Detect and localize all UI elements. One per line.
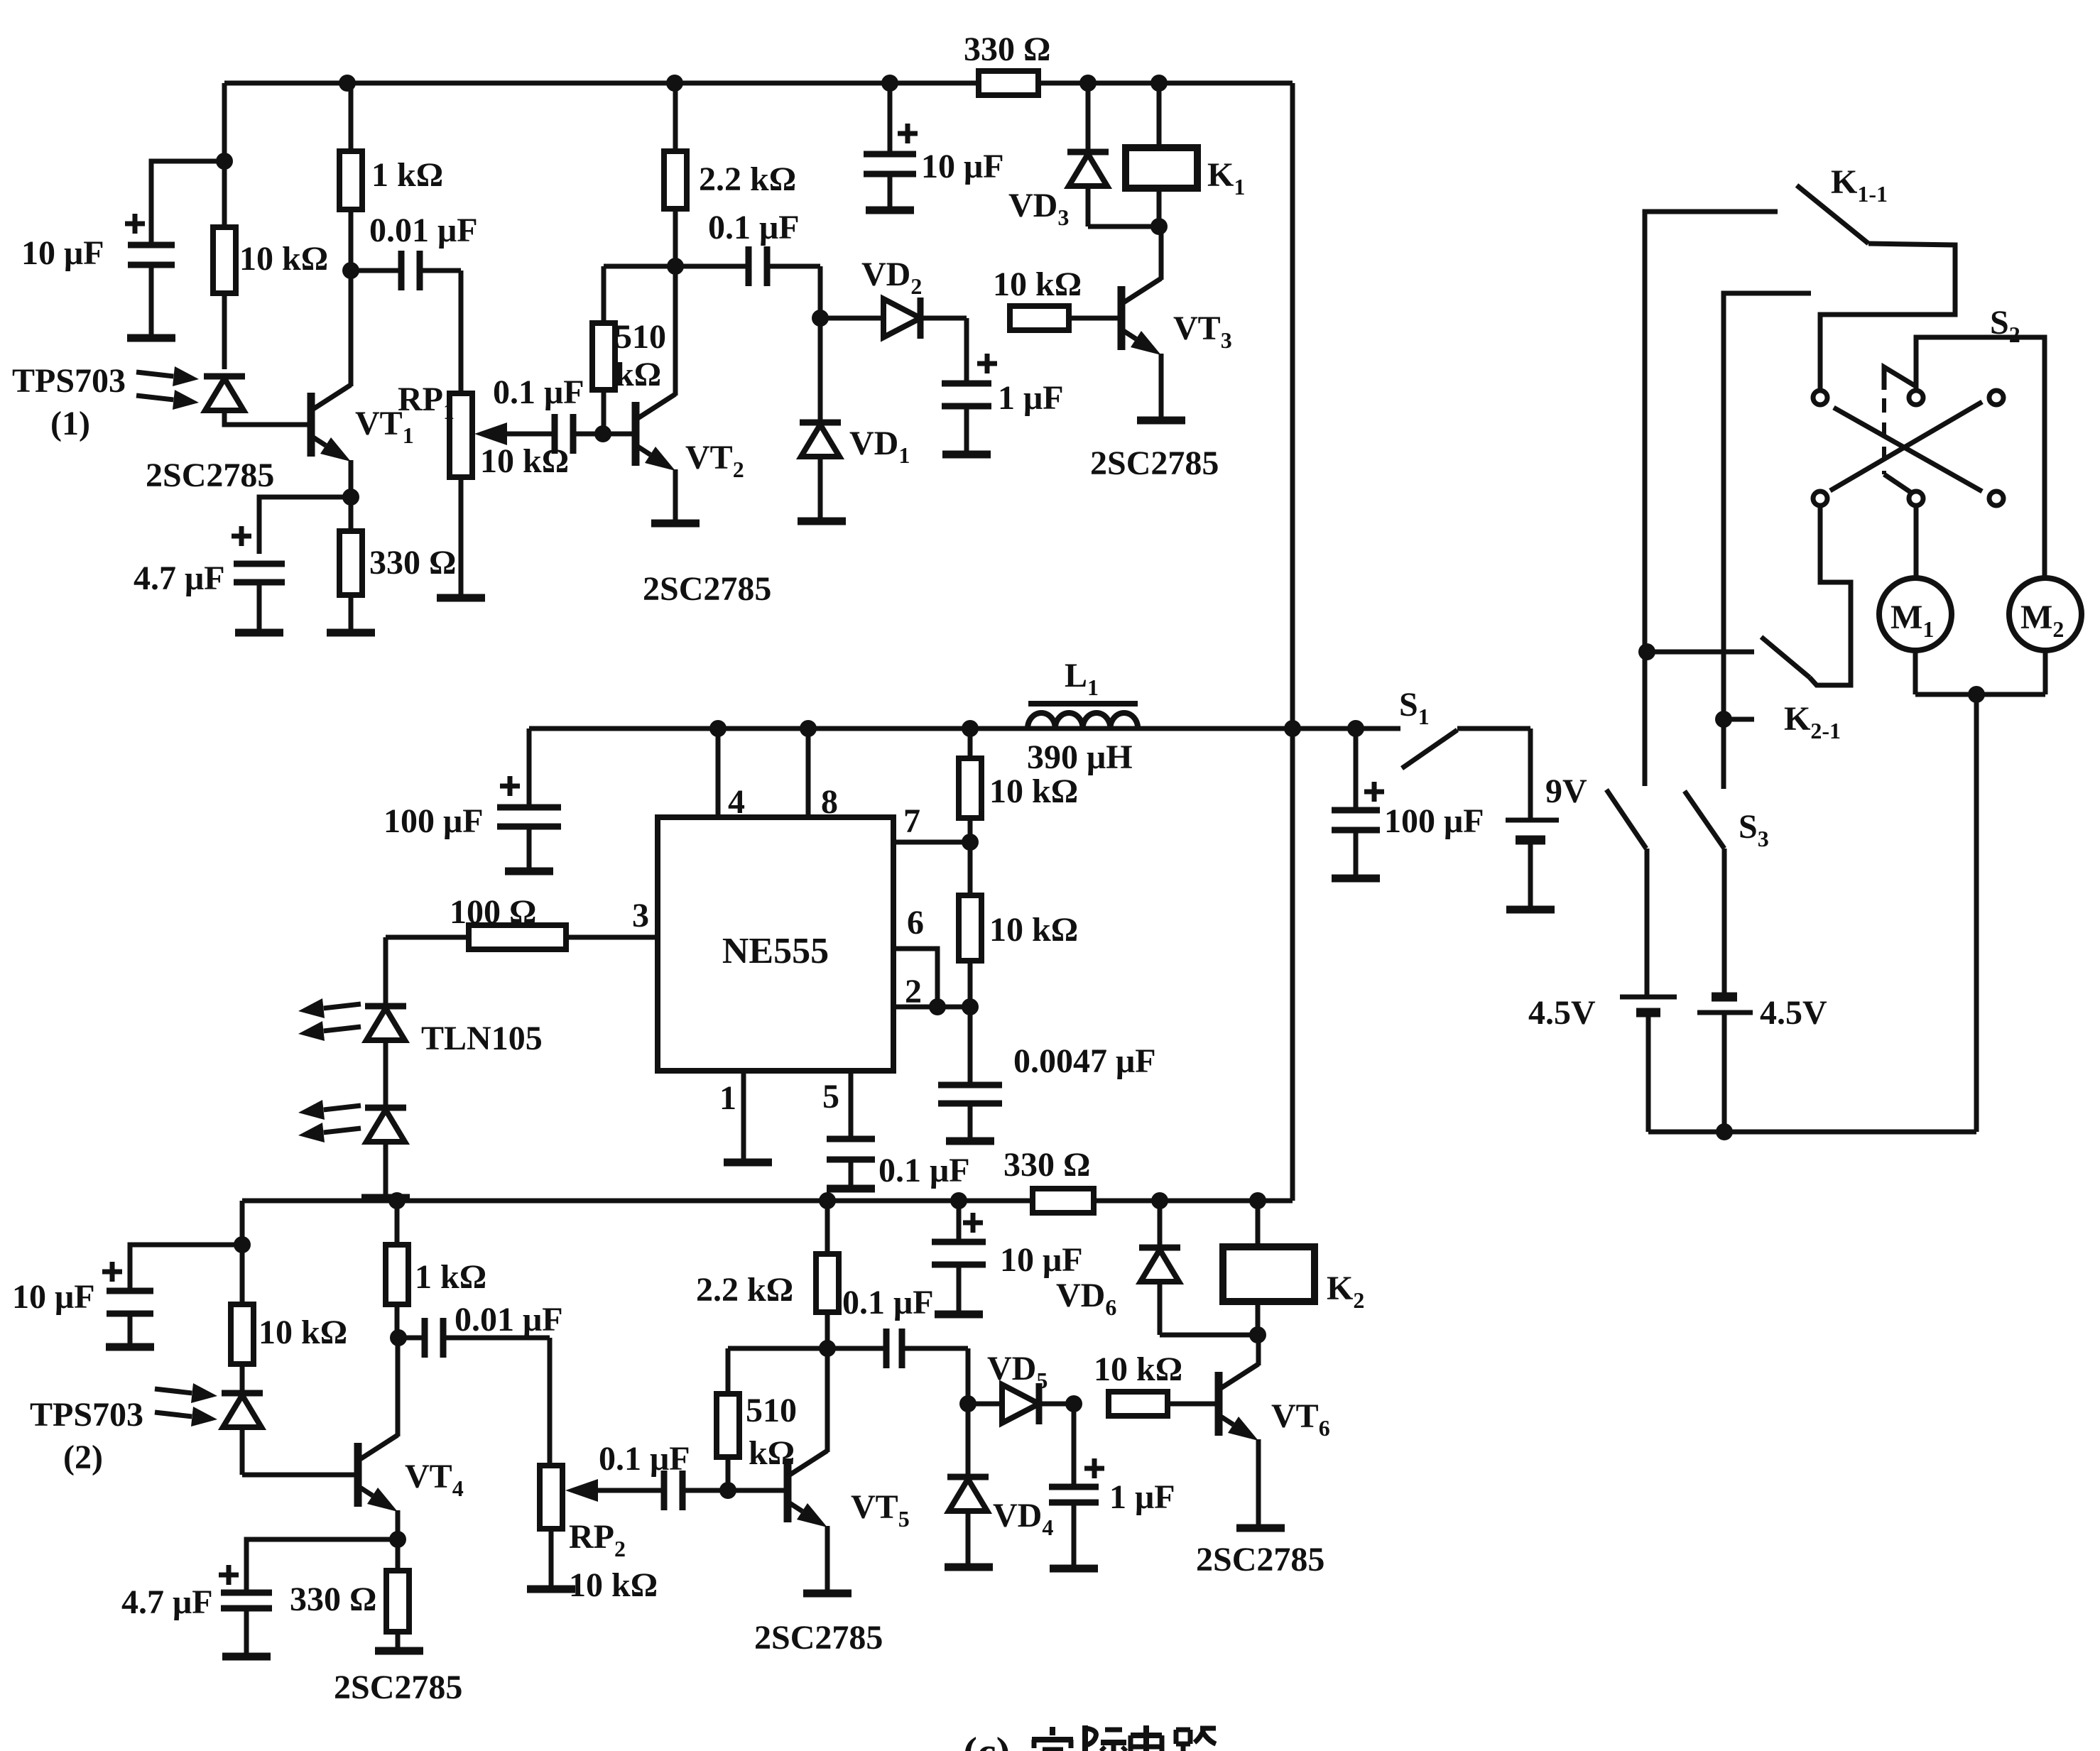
diode VD2 xyxy=(820,316,883,321)
svg-text:0.1 μF: 0.1 μF xyxy=(599,1440,690,1478)
svg-text:(2): (2) xyxy=(63,1439,103,1476)
wire top supply rail xyxy=(224,81,1293,86)
relay K2 xyxy=(1256,1201,1261,1247)
transistor VT6 2SC2785 xyxy=(1215,1372,1223,1436)
node VT2 base-510k xyxy=(594,425,611,442)
ground below VT5 xyxy=(803,1590,852,1598)
node VD5-VD4 xyxy=(959,1395,976,1412)
S2 actuator hook xyxy=(1884,367,1915,390)
wire S2 bottom-center to M1 xyxy=(1914,506,1919,578)
ground below 1uF bottom xyxy=(1050,1565,1098,1573)
wire emitter to 4.7uF bottom xyxy=(246,1539,398,1593)
svg-text:1: 1 xyxy=(719,1079,736,1117)
capacitor 0.1uF VT2-VD2 xyxy=(675,264,746,269)
resistor 2.2k bottom xyxy=(825,1201,830,1254)
diode VD5 xyxy=(968,1402,1002,1407)
resistor 10k top-left xyxy=(222,161,227,227)
wire down to VD2 node xyxy=(818,266,823,318)
svg-text:4.7 μF: 4.7 μF xyxy=(121,1583,213,1621)
svg-text:10 μF: 10 μF xyxy=(21,234,104,272)
node bottom rail 2.2k xyxy=(819,1192,836,1209)
ground below 0.1uF pin5 xyxy=(827,1185,875,1193)
node bottom rail 1k xyxy=(388,1192,406,1209)
caption hanzi dian xyxy=(1143,1725,1149,1751)
svg-text:0.01 μF: 0.01 μF xyxy=(455,1301,563,1338)
node rail-K1 xyxy=(1150,75,1168,92)
battery 4.5V left xyxy=(1620,995,1677,1000)
pin 4 xyxy=(716,729,721,817)
node rail-2.2k xyxy=(666,75,683,92)
wire motors common xyxy=(1915,692,2045,697)
svg-text:2SC2785: 2SC2785 xyxy=(1196,1541,1324,1578)
node line2 label stub xyxy=(1715,711,1732,728)
svg-text:(c): (c) xyxy=(963,1729,1011,1751)
wire line2 vertical xyxy=(1724,293,1811,789)
resistor 10k bottom-left xyxy=(240,1245,245,1304)
svg-text:9V: 9V xyxy=(1545,773,1587,810)
node K2-VT6 xyxy=(1249,1326,1266,1343)
node VT5 base-510k xyxy=(719,1482,736,1499)
resistor 1k bottom xyxy=(395,1201,400,1245)
arrows TPS703-1 xyxy=(136,372,173,376)
resistor 100 ohm xyxy=(469,925,566,949)
pin 2 xyxy=(893,1005,970,1010)
svg-text:1 kΩ: 1 kΩ xyxy=(371,156,443,194)
node ne555 rail pin4 xyxy=(709,720,727,737)
wire photodiode to VT1 base xyxy=(224,410,308,425)
wire to S1 xyxy=(1293,726,1400,731)
capacitor 1uF top xyxy=(964,318,969,383)
wire motor return vertical xyxy=(1974,694,1979,1132)
resistor 330 on top rail xyxy=(979,71,1038,95)
node VT4 emitter xyxy=(389,1531,406,1548)
node battery2 return xyxy=(1716,1123,1733,1140)
svg-text:2SC2785: 2SC2785 xyxy=(643,570,771,608)
capacitor 0.01uF top xyxy=(351,268,398,273)
potentiometer RP2 xyxy=(540,1466,562,1529)
ground below 100uF right xyxy=(1332,875,1380,883)
switch S3 blade xyxy=(1685,791,1724,849)
svg-text:10 kΩ: 10 kΩ xyxy=(989,911,1078,949)
capacitor 0.1uF RP2-VT5 xyxy=(661,1471,668,1510)
transistor VT3 2SC2785 xyxy=(1118,286,1126,350)
node rail-10uF xyxy=(881,75,898,92)
svg-text:8: 8 xyxy=(821,783,838,821)
ground below TLN105 xyxy=(361,1194,410,1202)
svg-text:NE555: NE555 xyxy=(722,931,829,971)
photodiode TPS703 (2) xyxy=(222,1390,263,1397)
svg-text:330 Ω: 330 Ω xyxy=(1003,1146,1090,1184)
wiper arrow RP2 xyxy=(598,1488,664,1493)
node rail-VD3 xyxy=(1079,75,1097,92)
node bottom rail K2 xyxy=(1249,1192,1266,1209)
wire left riser from rail xyxy=(222,83,227,161)
svg-text:330 Ω: 330 Ω xyxy=(369,544,456,582)
wire emitter to 4.7uF xyxy=(259,497,351,554)
node bottom rail VD6 xyxy=(1151,1192,1168,1209)
wire VT2 collector xyxy=(673,266,678,396)
relay K1 xyxy=(1157,83,1162,148)
S2 actuator dashed link xyxy=(1882,398,1886,474)
svg-text:1 kΩ: 1 kΩ xyxy=(415,1258,486,1296)
capacitor 100uF left xyxy=(527,729,532,807)
svg-text:10 kΩ: 10 kΩ xyxy=(993,266,1082,303)
svg-text:100 μF: 100 μF xyxy=(383,802,484,840)
node left riser junction xyxy=(216,153,233,170)
capacitor 10uF bottom-left xyxy=(107,1288,153,1294)
wire K2-1 to S2 bottom-left xyxy=(1810,506,1851,685)
ground below 10uF bottom-mid xyxy=(935,1311,983,1319)
resistor 10k VT3 base xyxy=(1010,306,1069,330)
node L1-right-bus xyxy=(1284,720,1301,737)
ground below VT2 xyxy=(651,520,700,528)
node 100uF right xyxy=(1347,720,1364,737)
wire down to VD5 node xyxy=(966,1348,971,1404)
ground below 100uF left xyxy=(505,868,553,875)
battery 9V xyxy=(1528,729,1533,820)
svg-text:10 kΩ: 10 kΩ xyxy=(239,240,328,278)
diode VD4 xyxy=(966,1404,971,1477)
ground below 10uF top-left xyxy=(127,334,175,342)
wire S2 top-center to M2 xyxy=(1916,337,2045,578)
label L1 xyxy=(1028,701,1138,707)
svg-text:10 kΩ: 10 kΩ xyxy=(1094,1351,1182,1388)
svg-text:6: 6 xyxy=(907,904,924,942)
capacitor 0.01uF bottom xyxy=(398,1336,422,1341)
ground below RP1 xyxy=(437,594,485,602)
caption hanzi ji xyxy=(1082,1725,1088,1751)
resistor 330 on bottom rail xyxy=(1033,1189,1094,1213)
svg-text:10 kΩ: 10 kΩ xyxy=(569,1566,658,1604)
svg-text:0.1 μF: 0.1 μF xyxy=(493,373,584,411)
LED TLN105 D1 xyxy=(365,1003,406,1010)
svg-text:1 μF: 1 μF xyxy=(1109,1478,1175,1516)
svg-text:10 μF: 10 μF xyxy=(921,148,1004,185)
wire NE555 vcc rail xyxy=(529,726,1293,731)
motor M1 xyxy=(1879,578,1952,650)
resistor 2.2k top xyxy=(673,83,678,151)
svg-text:0.1 μF: 0.1 μF xyxy=(708,209,800,246)
resistor 510k bottom xyxy=(726,1457,731,1490)
resistor 1k xyxy=(349,83,354,151)
ground below 330 top xyxy=(327,629,375,637)
wire blade1 to battery1 xyxy=(1645,849,1650,997)
node ne555 rail 10k xyxy=(962,720,979,737)
svg-text:TLN105: TLN105 xyxy=(421,1020,543,1057)
wire S3 to battery2 xyxy=(1722,849,1727,997)
node pin7 xyxy=(962,834,979,851)
svg-text:0.1 μF: 0.1 μF xyxy=(842,1284,934,1321)
switch K1-1 blade xyxy=(1797,185,1868,244)
motor M2 xyxy=(2009,578,2082,650)
capacitor 4.7uF bottom xyxy=(219,1573,239,1578)
wire VD6 to K2 bottom xyxy=(1160,1333,1258,1338)
capacitor 0.1uF pin5 xyxy=(827,1136,875,1142)
svg-text:4.5V: 4.5V xyxy=(1528,994,1596,1032)
arrows TLN105 D1 xyxy=(324,1004,361,1008)
pin 1 ground xyxy=(741,1071,746,1162)
switch S2 contact top-center xyxy=(1909,391,1923,405)
wire M1 bottom xyxy=(1913,650,1918,694)
resistor 10k VT6 base xyxy=(1109,1392,1168,1416)
node VT1 emitter xyxy=(342,489,359,506)
wire pin3 down to LEDs xyxy=(383,937,388,1006)
caption hanzi shi xyxy=(1050,1727,1055,1735)
node pin2-pin6 xyxy=(929,998,946,1015)
svg-text:10 kΩ: 10 kΩ xyxy=(259,1314,347,1351)
capacitor 10uF top-mid xyxy=(888,83,893,154)
wire 510k top to 2.2k junction xyxy=(604,264,675,269)
ground below 1uF top xyxy=(942,451,991,459)
wire VT4 collector xyxy=(396,1338,401,1436)
wire M2 bottom xyxy=(2043,650,2048,694)
battery 4.5V right xyxy=(1712,993,1737,1002)
ground below RP2 xyxy=(527,1586,575,1593)
wire cap to VT5 base xyxy=(682,1488,785,1493)
node 1k-collector bottom xyxy=(390,1329,407,1346)
svg-text:3: 3 xyxy=(632,897,649,934)
svg-text:TPS703: TPS703 xyxy=(30,1396,143,1434)
svg-text:10 μF: 10 μF xyxy=(12,1278,95,1316)
node motors common xyxy=(1968,686,1985,703)
ground below 330 bottom xyxy=(375,1647,423,1655)
svg-text:10 kΩ: 10 kΩ xyxy=(989,773,1078,810)
wire VT3 emitter xyxy=(1159,354,1164,420)
arrows TPS703-2 xyxy=(155,1389,192,1393)
LED TLN105 D2 xyxy=(365,1105,406,1111)
node ne555 rail pin8 xyxy=(800,720,817,737)
op-amp U1 NE555 box xyxy=(658,817,893,1071)
svg-text:4.7 μF: 4.7 μF xyxy=(134,560,225,597)
wire VT6 emitter xyxy=(1256,1439,1261,1528)
wire photodiode to VT4 base xyxy=(242,1473,355,1478)
arrows TLN105 D2 xyxy=(324,1106,361,1110)
svg-text:330 Ω: 330 Ω xyxy=(290,1581,376,1618)
svg-text:100 μF: 100 μF xyxy=(1384,802,1484,840)
resistor 10k B (pin6) xyxy=(968,842,973,895)
switch S2 contact top-right xyxy=(1989,391,2003,405)
inductor L1 390uH xyxy=(970,726,1028,731)
wire RP1 to ground xyxy=(459,477,464,598)
wire to 10uF bottom-left xyxy=(130,1245,242,1291)
wire VT1 collector xyxy=(349,271,354,386)
node bottom rail 10uF xyxy=(950,1192,967,1209)
wire 510k to 2.2k junction xyxy=(728,1346,827,1351)
node K2-1 feed xyxy=(1638,643,1655,660)
wire VT1 emitter down xyxy=(349,460,354,497)
resistor 10k A (pin7) xyxy=(968,729,973,758)
transistor VT2 2SC2785 xyxy=(632,402,640,466)
svg-text:kΩ: kΩ xyxy=(615,356,661,393)
capacitor 100uF right xyxy=(1354,729,1359,810)
svg-text:(1): (1) xyxy=(50,405,90,442)
ground below 10uF bottom-left xyxy=(106,1343,154,1351)
svg-text:0.1 μF: 0.1 μF xyxy=(878,1152,970,1189)
resistor 330 bottom receiver xyxy=(396,1539,401,1571)
wiper arrow RP1 xyxy=(507,432,555,437)
svg-text:4: 4 xyxy=(728,783,745,821)
svg-text:510: 510 xyxy=(746,1392,797,1429)
node pin2-10k xyxy=(962,998,979,1015)
switch 9V-side blade xyxy=(1606,790,1646,849)
node VT5 collector junction xyxy=(819,1340,836,1357)
wire S2 cross TL-BR xyxy=(1834,408,1982,491)
svg-text:2.2 kΩ: 2.2 kΩ xyxy=(696,1271,793,1309)
pin 6 xyxy=(893,949,937,1007)
ground below 9V battery xyxy=(1506,906,1555,914)
wire K1-1 to S2 top-left xyxy=(1820,244,1955,390)
wire to 10uF cap xyxy=(151,161,224,245)
caption hanzi lu xyxy=(1176,1728,1190,1733)
wire VT4 emitter down xyxy=(396,1510,401,1539)
transistor VT4 2SC2785 xyxy=(354,1443,362,1507)
node bottom-left riser junction xyxy=(234,1236,251,1253)
switch S2 contact bottom-left xyxy=(1813,491,1827,506)
wire battery return xyxy=(1648,1130,1976,1135)
wire cap to RP2 xyxy=(548,1338,553,1466)
transistor VT5 2SC2785 xyxy=(784,1458,792,1522)
svg-text:7: 7 xyxy=(903,802,920,840)
pin 3 xyxy=(566,935,658,940)
switch S1 xyxy=(1402,730,1457,768)
capacitor 4.7uF top xyxy=(232,534,251,539)
wire K1-1 feed vertical xyxy=(1645,212,1778,786)
ground below VD4 xyxy=(945,1564,993,1571)
capacitor 0.0047uF xyxy=(968,1007,973,1085)
svg-text:TPS703: TPS703 xyxy=(12,362,126,400)
wire VT3 collector xyxy=(1159,227,1164,280)
node VT2 collector junction xyxy=(667,258,684,275)
svg-text:100 Ω: 100 Ω xyxy=(450,893,536,931)
svg-text:2SC2785: 2SC2785 xyxy=(1090,444,1219,482)
wire VT2 emitter xyxy=(673,469,678,523)
svg-text:1 μF: 1 μF xyxy=(998,379,1064,417)
diode VD1 xyxy=(818,318,823,422)
switch S2 contact bottom-center xyxy=(1909,491,1923,506)
ground below 10uF top-mid xyxy=(866,207,914,214)
wire VT5 emitter xyxy=(825,1526,830,1593)
pin 5 xyxy=(849,1071,854,1139)
svg-text:2SC2785: 2SC2785 xyxy=(334,1669,462,1706)
svg-text:0.01 μF: 0.01 μF xyxy=(369,212,478,249)
wire bottom-left riser xyxy=(240,1201,245,1245)
node K1-VT3 xyxy=(1150,218,1168,235)
switch S2 contact top-left xyxy=(1813,391,1827,405)
switch S2 contact bottom-right xyxy=(1989,491,2003,506)
pin 8 xyxy=(806,729,811,817)
wire S2 cross BL-TR xyxy=(1830,402,1982,491)
wire cap to VT2 base xyxy=(573,432,634,437)
capacitor 0.1uF RP1-VT2 xyxy=(552,414,558,454)
switch K2-1 blade xyxy=(1761,637,1810,677)
ground below VT6 xyxy=(1236,1524,1285,1532)
svg-text:390 μH: 390 μH xyxy=(1027,738,1133,776)
svg-text:2: 2 xyxy=(905,973,922,1010)
svg-text:2.2 kΩ: 2.2 kΩ xyxy=(699,160,796,198)
wire VT6 collector xyxy=(1256,1335,1261,1365)
svg-text:5: 5 xyxy=(822,1078,839,1115)
capacitor 10uF bottom-mid xyxy=(957,1201,962,1242)
wire VT5 collector xyxy=(825,1348,830,1452)
photodiode TPS703 (1) xyxy=(204,373,245,380)
node rail-1k xyxy=(339,75,356,92)
node VD5-1uF xyxy=(1065,1395,1082,1412)
capacitor 10uF (top-left) xyxy=(128,242,175,249)
transistor VT1 2SC2785 xyxy=(308,393,315,457)
capacitor 0.1uF VT5-VD5 xyxy=(827,1346,883,1351)
capacitor 1uF bottom xyxy=(1072,1404,1077,1487)
ground below 4.7uF top xyxy=(235,629,283,637)
svg-text:2SC2785: 2SC2785 xyxy=(146,457,274,494)
resistor 330 top receiver xyxy=(349,497,354,531)
resistor 510k top xyxy=(602,390,606,434)
wire K2-1 feed horizontal xyxy=(1647,650,1754,655)
wire bottom supply rail xyxy=(242,1199,1293,1204)
diode VD3 xyxy=(1086,83,1091,152)
potentiometer RP1 xyxy=(450,393,472,477)
wire RP2 to ground xyxy=(549,1529,554,1589)
wire right-edge vertical bus xyxy=(1290,83,1295,1201)
ground below VT3 xyxy=(1137,417,1185,425)
svg-text:0.0047 μF: 0.0047 μF xyxy=(1013,1042,1156,1080)
node VD2-VD1 xyxy=(812,310,829,327)
svg-text:10 μF: 10 μF xyxy=(1000,1241,1083,1279)
node 1k-collector-cap xyxy=(342,262,359,279)
pin 7 xyxy=(893,840,970,845)
ground below 0.0047uF xyxy=(946,1138,994,1145)
ground below 4.7uF bottom xyxy=(222,1653,271,1661)
ground below VD1 xyxy=(798,518,846,525)
wire VD3 to K1 bottom xyxy=(1088,224,1164,229)
svg-text:330 Ω: 330 Ω xyxy=(964,31,1050,68)
svg-text:4.5V: 4.5V xyxy=(1760,994,1827,1032)
wire cap to RP1 xyxy=(459,271,464,393)
diode VD6 xyxy=(1158,1201,1163,1248)
svg-text:510: 510 xyxy=(615,318,666,356)
svg-text:2SC2785: 2SC2785 xyxy=(754,1619,883,1657)
